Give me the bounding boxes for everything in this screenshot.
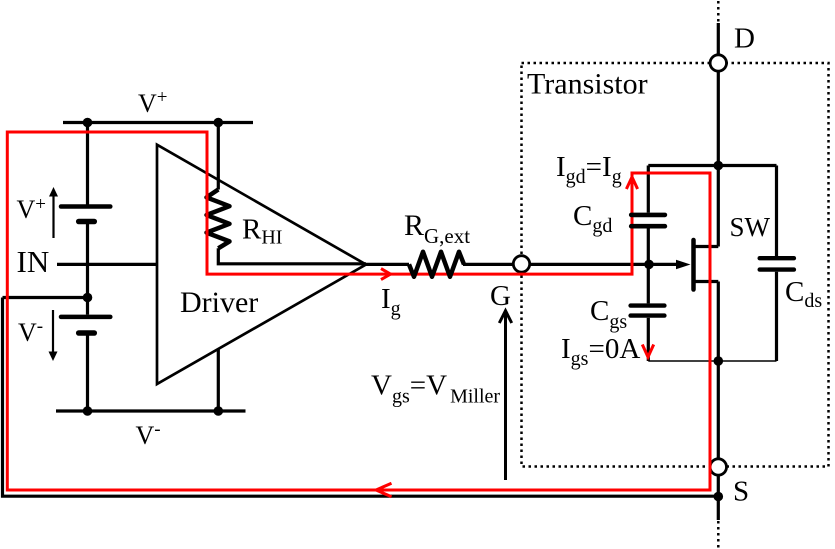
node dot midpoint <box>83 293 93 303</box>
dotted drain extension top <box>717 1 720 23</box>
wire top inner <box>648 164 776 167</box>
wire battery chain <box>86 123 89 412</box>
svg-text:D: D <box>734 23 755 55</box>
svg-text:Driver: Driver <box>180 286 258 319</box>
transistor dotted box <box>522 63 829 467</box>
resistor R_G,ext <box>409 252 464 277</box>
battery V+ plates <box>61 204 110 209</box>
wire G to gate <box>530 263 682 266</box>
svg-text:SW: SW <box>730 212 771 242</box>
svg-text:Transistor: Transistor <box>527 68 648 101</box>
node dot drain inner <box>714 161 724 171</box>
node dot S <box>714 492 724 502</box>
wire drain vertical <box>717 23 720 247</box>
capacitor C_gs <box>631 303 665 307</box>
svg-text:IN: IN <box>17 244 50 279</box>
red arrow Igs down <box>642 345 653 358</box>
wire left return <box>3 298 719 497</box>
capacitor C_ds lead top <box>775 166 778 257</box>
capacitor C_gd lead bottom <box>647 228 650 264</box>
node dot V- rail right <box>214 406 224 416</box>
node S circle <box>710 459 726 475</box>
capacitor C_gs lead bottom <box>647 318 650 361</box>
red arrow return left <box>376 483 392 497</box>
node dot gate <box>644 260 654 270</box>
node dot source inner <box>714 356 724 366</box>
annotation arrow V+ <box>52 196 54 238</box>
wire driver output <box>366 263 409 266</box>
capacitor C_ds <box>760 256 794 260</box>
capacitor C_gs lead top <box>647 264 650 303</box>
op-amp U1 driver triangle <box>157 145 366 384</box>
gate arrowhead <box>676 260 691 270</box>
wire supply midpoint <box>3 296 88 299</box>
svg-text:S: S <box>733 476 749 508</box>
red current loop <box>7 132 710 490</box>
node D circle <box>710 55 726 71</box>
dotted source extension bottom <box>717 521 720 549</box>
wire driver low branch <box>217 349 220 411</box>
transistor Q1 bar <box>691 240 696 290</box>
capacitor C_ds lead bottom <box>775 272 778 361</box>
svg-text:G: G <box>490 280 511 312</box>
annotation arrow Vgs <box>504 313 507 480</box>
node dot V+ rail left <box>83 118 93 128</box>
red arrow Igd up <box>626 177 637 189</box>
wire IN <box>57 263 157 266</box>
capacitor C_gd lead top <box>647 166 650 213</box>
wire source vertical <box>717 282 720 521</box>
transistor Q1 source lead <box>696 280 719 283</box>
annotation arrow V- <box>52 310 54 352</box>
transistor Q1 drain lead <box>696 245 719 248</box>
wire V- rail <box>56 409 246 412</box>
resistor R_HI <box>207 190 230 249</box>
wire bottom inner thin <box>648 360 776 362</box>
wire V+ rail <box>63 121 253 124</box>
resistor R_HI leads <box>218 123 366 264</box>
node dot V+ rail right <box>214 118 224 128</box>
node dot V- rail left <box>83 406 93 416</box>
wire resistor to G <box>463 263 513 266</box>
capacitor C_gd <box>631 213 665 218</box>
red arrow Ig right <box>381 269 391 280</box>
node G circle <box>513 256 529 272</box>
battery V- plates <box>61 315 110 320</box>
